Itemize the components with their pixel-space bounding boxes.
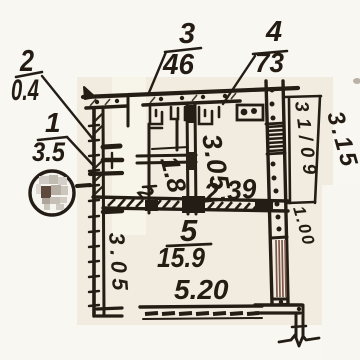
squiggle glyphs (handwritten marks) <box>132 153 193 205</box>
break zigzag <box>279 335 319 346</box>
left wall door dash 2 <box>103 158 122 163</box>
light scanner band <box>112 77 146 235</box>
partition bath vertical right line <box>195 104 196 214</box>
plan area cream <box>77 77 333 325</box>
right wall window caps lower <box>271 237 288 299</box>
left wall long tick <box>90 173 122 174</box>
leader room 4 <box>223 56 255 104</box>
interior wall top line <box>93 197 288 201</box>
right wall window caps upper <box>266 123 285 154</box>
top wall bottom line left <box>86 106 127 108</box>
label room 1 fraction line <box>38 137 67 140</box>
svg-text:5.20: 5.20 <box>174 274 229 305</box>
corner vertical left <box>295 313 298 338</box>
partition bath pipe <box>176 120 179 150</box>
right wall right face <box>283 81 288 303</box>
corner smudge top right <box>353 78 360 84</box>
bottom wall bottom line <box>143 318 262 319</box>
leader room 2 <box>42 76 93 139</box>
interior wall junction blob partition B <box>182 196 205 213</box>
left wall inner line <box>103 108 104 316</box>
right wall dots upper <box>270 88 276 121</box>
closet horizontal wall line 1 <box>137 155 196 156</box>
svg-text:3.5: 3.5 <box>32 137 66 167</box>
corner tick <box>292 326 306 327</box>
left wall dash below interior wall <box>103 211 122 212</box>
right margin lighter <box>322 185 360 360</box>
svg-text:15.9: 15.9 <box>157 242 205 273</box>
partition closet vertical <box>148 124 151 213</box>
bottom wall brick dashes <box>145 313 259 314</box>
svg-text:2.39: 2.39 <box>202 173 258 208</box>
bottom wall right segment bottom <box>255 311 300 314</box>
tick right of stamp <box>77 185 90 186</box>
left wall ticks <box>89 125 99 306</box>
bottom wall right segment top <box>255 303 302 306</box>
right wall bottom dot <box>279 300 283 304</box>
top wall left hook <box>84 87 95 99</box>
right wall left face <box>266 81 272 303</box>
tabs row below top wall <box>150 107 219 128</box>
interior wall hatch <box>108 199 259 211</box>
label room 2 fraction line <box>16 72 42 77</box>
bottom wall left dash bottom <box>96 314 122 317</box>
corner dot <box>297 307 301 311</box>
bottom wall left dash top <box>97 308 122 309</box>
closet horizontal wall line 2 <box>137 162 196 163</box>
corner vertical right <box>302 305 305 338</box>
right wall bottom cap <box>272 300 288 305</box>
left wall door tick vertical <box>111 153 113 168</box>
svg-text:73: 73 <box>255 47 284 78</box>
dimension line outer vertical R2 <box>315 96 320 203</box>
svg-text:3: 3 <box>179 18 195 50</box>
interior wall junction partition A <box>145 200 158 211</box>
left wall door dash 1 <box>103 146 120 147</box>
closet upper thin line <box>152 147 188 149</box>
bottom wall top line <box>140 306 262 307</box>
label room 4 fraction line <box>253 51 287 54</box>
dimension line inner vertical R1 <box>289 99 290 203</box>
dimension box bottom <box>288 202 315 203</box>
box with two dots (flue) <box>237 105 263 120</box>
right wall window hatch upper <box>267 126 285 151</box>
leader room 1 <box>67 137 93 165</box>
top wall top line <box>83 88 298 97</box>
leader room 3 <box>148 52 166 95</box>
partition bath vertical left line <box>187 104 188 214</box>
partition closet tick a <box>143 186 156 187</box>
partition bath fill bottom <box>186 152 196 170</box>
left wall outer line <box>92 108 96 316</box>
interior wall junction right <box>255 199 273 211</box>
svg-text:46: 46 <box>162 49 195 81</box>
svg-text:4: 4 <box>265 16 282 48</box>
right wall window hatch lower (red) <box>276 240 286 297</box>
top wall dots <box>95 94 227 104</box>
stamp pixelated blocks <box>36 175 68 210</box>
interior wall bottom line <box>103 208 288 211</box>
stamp circle <box>30 171 74 215</box>
flue dot 2 <box>251 108 257 114</box>
svg-text:0.4: 0.4 <box>11 74 39 107</box>
partition bath fill top <box>186 105 196 123</box>
left wall hatch smudges <box>95 113 103 194</box>
door jamb left <box>127 98 130 126</box>
flue dot 1 <box>241 109 248 116</box>
top wall hatch smudges <box>90 93 236 106</box>
label room 5 fraction line <box>167 244 211 246</box>
svg-text:1: 1 <box>45 107 61 138</box>
top wall bottom line mid <box>143 101 240 105</box>
svg-text:3.05: 3.05 <box>104 232 133 296</box>
right wall dots mid <box>271 162 282 232</box>
label room 3 fraction line <box>165 48 201 52</box>
dimension line top tick <box>285 96 321 97</box>
